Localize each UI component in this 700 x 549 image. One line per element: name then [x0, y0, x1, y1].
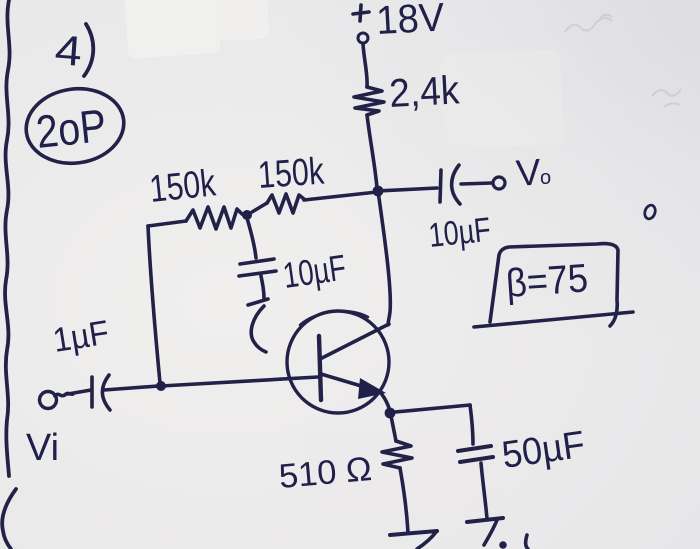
transistor collector stroke — [322, 324, 389, 358]
node emitter junction — [385, 408, 396, 419]
resistor 2,4k — [354, 87, 384, 115]
capacitor 1uF — [90, 377, 94, 407]
transistor emitter stroke — [321, 374, 378, 391]
stray o mark right — [643, 204, 657, 220]
wire emitter node to right branch — [395, 405, 470, 412]
wire collector lead vertical — [378, 191, 390, 325]
wire 1uF to input node — [104, 386, 158, 390]
box beta=75 — [490, 244, 618, 326]
wire collector node to output cap — [378, 188, 437, 191]
wire left vertical down to input node — [148, 226, 160, 383]
svg-text:2oP: 2oP — [34, 99, 109, 158]
ground right — [467, 518, 503, 522]
svg-text:18V: 18V — [375, 0, 446, 43]
stray mark bottom right — [526, 535, 528, 549]
ellipse around 20P — [21, 83, 128, 170]
transistor emitter arrowhead — [358, 378, 386, 399]
svg-text:510 Ω: 510 Ω — [277, 450, 373, 496]
node input junction — [156, 381, 166, 391]
white correction patches top — [124, 0, 220, 59]
svg-text:Vi: Vi — [26, 427, 59, 469]
wire 150k to left corner — [148, 221, 186, 226]
node: input terminal Vi — [40, 392, 57, 409]
capacitor 10uF output — [440, 170, 441, 202]
wire R 2.4k to collector node — [367, 115, 377, 188]
wire 510 to ground — [400, 468, 408, 533]
svg-text:2,4k: 2,4k — [388, 68, 461, 116]
wire collector node to R 150k (2) — [304, 192, 377, 200]
faint scribbles top-right — [565, 15, 681, 107]
wire cap to Vo terminal — [461, 183, 492, 184]
svg-text:β=75: β=75 — [505, 256, 590, 306]
transistor Q1 circle — [287, 311, 389, 413]
resistor 150k (right) — [267, 194, 304, 213]
svg-text:10µF: 10µF — [427, 211, 493, 255]
transistor base bar — [319, 336, 321, 400]
svg-text:150k: 150k — [148, 162, 219, 211]
wire terminal to 1uF cap — [68, 390, 91, 394]
resistor 510 ohm — [382, 441, 412, 468]
capacitor 50uF — [458, 446, 491, 451]
wire supply to R 2.4k — [363, 44, 367, 87]
ground left — [390, 531, 437, 535]
paper edge arc bottom-left — [2, 489, 16, 549]
node collector junction — [373, 186, 384, 197]
node: Vo terminal — [493, 177, 505, 189]
node: +18V supply terminal — [353, 12, 369, 14]
wire mid-node down to bypass cap — [247, 218, 256, 258]
capacitor 10uF bypass — [240, 259, 274, 264]
node between 150k resistors — [242, 210, 252, 220]
svg-text:4: 4 — [53, 26, 83, 75]
label 4) paren — [84, 24, 93, 76]
wire emitter lead to node — [380, 392, 390, 411]
resistor 150k (left) — [186, 207, 242, 229]
wire base: input node to transistor base — [161, 377, 318, 386]
wire 50uF to ground — [481, 463, 487, 519]
wire between 150k resistors — [252, 203, 267, 212]
wire curl below bypass cap — [251, 306, 266, 352]
svg-text:V: V — [515, 151, 543, 194]
wire right branch down to 50uF — [470, 405, 473, 444]
paper left edge wavy line — [5, 0, 10, 476]
svg-text:150k: 150k — [257, 150, 327, 197]
svg-text:o: o — [540, 167, 551, 189]
wire emitter node down to 510 — [391, 416, 396, 441]
svg-text:10µF: 10µF — [280, 247, 348, 296]
